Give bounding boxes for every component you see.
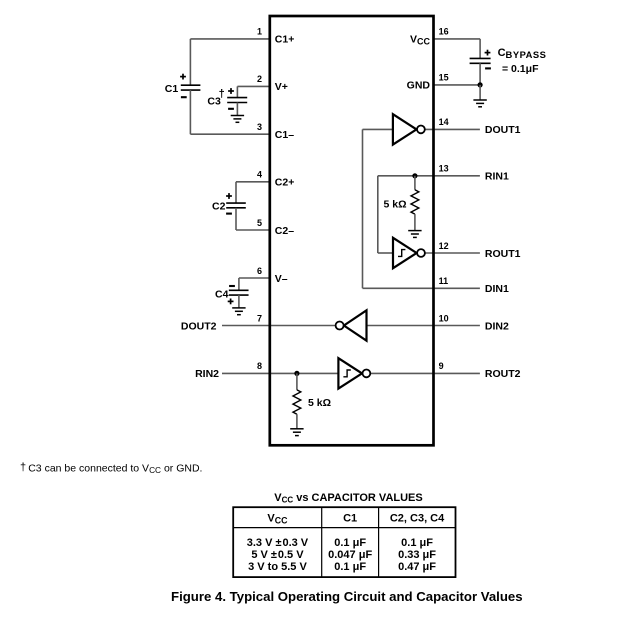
capacitor CBYPASS (470, 58, 491, 63)
op-amp U1a transmitter inverter (393, 114, 425, 144)
wire CBYPASS bottom lead (479, 63, 481, 85)
wire C1 top lead (189, 39, 191, 85)
wire R1 bottom lead (414, 214, 416, 231)
wire C4 bottom lead (238, 295, 240, 308)
svg-text:C2–: C2– (275, 225, 294, 237)
C2 minus mark (226, 213, 232, 215)
table outer border (233, 507, 455, 577)
C4 minus mark (229, 285, 235, 287)
wire inverter U1b output to ROUT1 (425, 252, 480, 254)
wire U1b input horizontal (378, 252, 393, 254)
wire pin5 C2- to C2 bottom (236, 229, 270, 231)
wire R1 top lead (414, 176, 416, 190)
svg-text:0.1 μF: 0.1 μF (334, 561, 366, 573)
wire DIN2 to inverter U1c input (367, 325, 480, 327)
wire DOUT2 to inverter U1c output (222, 325, 335, 327)
svg-text:13: 13 (439, 164, 449, 174)
C2 plus mark (226, 193, 232, 199)
junction RIN1 node (412, 173, 417, 178)
svg-text:ROUT1: ROUT1 (485, 248, 521, 260)
wire DIN1 to U1a input net (363, 287, 480, 289)
junction RIN2 node (294, 371, 299, 376)
svg-text:V–: V– (275, 273, 288, 285)
svg-text:CBYPASS: CBYPASS (498, 47, 547, 60)
svg-text:14: 14 (439, 117, 449, 127)
table column line 1 (321, 507, 323, 577)
svg-text:9: 9 (439, 361, 444, 371)
svg-text:C2: C2 (212, 201, 226, 213)
wire U1a input horizontal (363, 128, 393, 130)
capacitor C3 (227, 98, 247, 103)
svg-text:0.33 μF: 0.33 μF (398, 549, 436, 561)
svg-text:C1–: C1– (275, 129, 294, 141)
op-amp U1b receiver inverter (393, 238, 425, 268)
wire C2 top lead (235, 182, 237, 203)
wire C3 bottom lead (236, 103, 238, 116)
wire inverter U1d output to ROUT2 (370, 372, 480, 374)
svg-text:2: 2 (257, 74, 262, 84)
wire C1 bottom lead (189, 90, 191, 134)
svg-text:11: 11 (439, 276, 449, 286)
svg-text:10: 10 (439, 313, 449, 323)
wire pin4 C2+ to C2 top (236, 181, 270, 183)
wire C2 bottom lead (235, 208, 237, 230)
op-amp U1d receiver inverter (338, 358, 370, 388)
svg-text:C2+: C2+ (275, 177, 295, 189)
op-amp U1c transmitter inverter (336, 310, 367, 340)
wire GND node to ground (479, 85, 481, 100)
resistor R2 5k (293, 390, 301, 414)
C1 minus mark (181, 96, 187, 98)
svg-text:3: 3 (257, 122, 262, 132)
svg-text:VCC vs CAPACITOR VALUES: VCC vs CAPACITOR VALUES (274, 492, 422, 505)
svg-text:6: 6 (257, 266, 262, 276)
svg-text:†: † (219, 88, 225, 100)
wire pin2 V+ to C3 (237, 85, 269, 87)
ground at GND pin (473, 100, 486, 107)
wire R2 bottom lead (296, 414, 298, 429)
wire C4 top lead (238, 278, 240, 290)
svg-text:5 V ± 0.5 V: 5 V ± 0.5 V (251, 549, 304, 561)
svg-text:V+: V+ (275, 81, 288, 93)
wire pin16 VCC to CBYPASS (433, 38, 480, 40)
svg-text:ROUT2: ROUT2 (485, 368, 521, 380)
ground under R1 (408, 231, 421, 238)
svg-text:C4: C4 (215, 289, 229, 301)
capacitor C2 (226, 203, 246, 208)
svg-text:0.47 μF: 0.47 μF (398, 561, 436, 573)
svg-text:5 kΩ: 5 kΩ (308, 397, 331, 409)
svg-text:8: 8 (257, 361, 262, 371)
C3 plus mark (228, 88, 234, 94)
capacitor C4 (229, 290, 249, 295)
svg-text:= 0.1μF: = 0.1μF (502, 63, 539, 75)
CBYPASS plus mark (485, 50, 491, 56)
svg-text:4: 4 (257, 170, 262, 180)
IC U1 body outline (270, 16, 434, 445)
capacitor C1 (181, 85, 201, 90)
wire U1a input vertical (362, 129, 364, 288)
svg-text:0.1 μF: 0.1 μF (334, 537, 366, 549)
wire C3 top lead (236, 86, 238, 97)
svg-text:GND: GND (407, 80, 431, 92)
wire RIN1 node left (378, 175, 415, 177)
C3 minus mark (228, 108, 234, 110)
wire CBYPASS top lead (479, 39, 481, 59)
svg-text:RIN1: RIN1 (485, 171, 509, 183)
resistor R1 5k (411, 190, 419, 214)
table header separator (233, 527, 455, 529)
svg-text:C1: C1 (165, 83, 179, 95)
table column line 2 (378, 507, 380, 577)
svg-text:DIN2: DIN2 (485, 320, 509, 332)
svg-text:3.3 V ± 0.3 V: 3.3 V ± 0.3 V (247, 537, 309, 549)
ground under C3 (231, 116, 244, 123)
C1 plus mark (180, 74, 186, 80)
svg-text:C2, C3, C4: C2, C3, C4 (390, 513, 445, 525)
ground under R2 (290, 429, 303, 436)
svg-text:1: 1 (257, 27, 262, 37)
wire RIN2 to inverter U1d input (222, 372, 338, 374)
svg-text:DIN1: DIN1 (485, 283, 509, 295)
svg-text:Figure 4. Typical Operating Ci: Figure 4. Typical Operating Circuit and … (171, 589, 523, 604)
wire pin15 GND node (433, 84, 480, 86)
svg-text:DOUT2: DOUT2 (181, 320, 217, 332)
wire U1b input vertical (377, 176, 379, 253)
wire pin3 C1- to C1 bottom (190, 133, 269, 135)
svg-text:0.047 μF: 0.047 μF (328, 549, 372, 561)
svg-text:0.1 μF: 0.1 μF (401, 537, 433, 549)
wire R2 top lead (296, 373, 298, 390)
C4 plus mark (228, 299, 234, 305)
svg-text:C1+: C1+ (275, 34, 295, 46)
svg-text:RIN2: RIN2 (195, 368, 219, 380)
svg-text:3 V to 5.5 V: 3 V to 5.5 V (248, 561, 307, 573)
svg-text:C1: C1 (343, 513, 357, 525)
svg-text:† C3 can be connected to VCC o: † C3 can be connected to VCC or GND. (20, 461, 202, 475)
svg-text:5: 5 (257, 218, 262, 228)
svg-text:DOUT1: DOUT1 (485, 124, 521, 136)
svg-text:7: 7 (257, 313, 262, 323)
junction GND node (478, 82, 483, 87)
ground under C4 (232, 308, 245, 315)
svg-text:5 kΩ: 5 kΩ (383, 198, 406, 210)
svg-text:16: 16 (439, 27, 449, 37)
wire RIN1 node to pin13 (415, 175, 480, 177)
wire pin1 C1+ to C1 top (190, 38, 269, 40)
CBYPASS minus mark (485, 67, 491, 69)
wire pin6 V- to C4 (239, 277, 270, 279)
svg-text:15: 15 (439, 73, 449, 83)
svg-text:12: 12 (439, 241, 449, 251)
wire inverter U1a output to DOUT1 (425, 128, 480, 130)
